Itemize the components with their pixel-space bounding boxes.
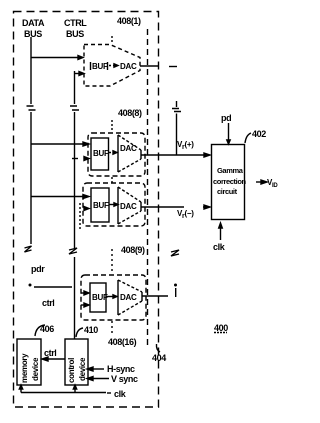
wire clk arrow to gamma xyxy=(220,228,222,240)
DAC3 trapezoid xyxy=(117,187,119,224)
wire block4 output tick xyxy=(175,288,177,297)
arrow BUF4 to DAC4 xyxy=(106,296,114,298)
memory device box 406 xyxy=(17,339,41,385)
wire vertical to Vr(+) with break xyxy=(176,101,178,107)
underline 400 xyxy=(214,332,227,334)
wire Vr(-) output xyxy=(141,206,184,208)
svg-text:CTRL: CTRL xyxy=(64,18,87,28)
svg-text:V sync: V sync xyxy=(111,374,138,384)
leader 410 xyxy=(76,328,83,337)
wire data to block3 xyxy=(31,196,86,198)
wire data to block1 xyxy=(31,57,80,59)
svg-text:DAC: DAC xyxy=(120,202,137,211)
leader 406 xyxy=(35,325,45,336)
svg-text:410: 410 xyxy=(84,325,98,335)
svg-text:DAC: DAC xyxy=(120,62,137,71)
svg-text:406: 406 xyxy=(40,324,54,334)
wire H-sync arrow xyxy=(91,368,104,370)
svg-text:BUF: BUF xyxy=(93,149,109,158)
leader 402 xyxy=(245,133,251,143)
data bus break xyxy=(27,106,36,110)
svg-text:DATA: DATA xyxy=(22,18,45,28)
svg-text:BUS: BUS xyxy=(66,29,84,39)
squiggle break right area xyxy=(171,250,179,256)
svg-text:pdr: pdr xyxy=(31,264,45,274)
wire ctrl to block2 xyxy=(72,158,78,160)
svg-text:408(8): 408(8) xyxy=(118,108,142,118)
wire ctrl bus lower to control device xyxy=(74,257,76,339)
svg-text:BUS: BUS xyxy=(24,29,42,39)
DAC block 408(1) dashed hexagon xyxy=(84,45,140,87)
svg-text:clk: clk xyxy=(114,389,127,399)
svg-text:Gamma: Gamma xyxy=(217,166,244,175)
ctrl bus break xyxy=(70,106,79,110)
wire ctrl to block1 xyxy=(75,73,81,75)
buffer BUF3 rect xyxy=(91,188,109,222)
DAC4 trapezoid xyxy=(117,280,119,315)
arrow BUF3 to DAC3 xyxy=(109,204,115,206)
svg-text:408(9): 408(9) xyxy=(121,245,145,255)
wire Vid output arrow xyxy=(256,181,262,183)
ctrl bus squiggle break xyxy=(69,248,77,254)
wire data to block2 xyxy=(31,143,86,145)
svg-text:ctrl: ctrl xyxy=(44,348,56,358)
svg-text:400: 400 xyxy=(214,323,228,333)
DAC block 408(16) dashed box xyxy=(81,275,146,320)
dashed arrow BUF2 to DAC2 xyxy=(109,152,114,154)
wire ctrl bus vertical xyxy=(74,71,76,104)
svg-text:circuit: circuit xyxy=(217,187,238,196)
wire V-sync arrow xyxy=(91,378,109,380)
svg-text:H-sync: H-sync xyxy=(107,364,135,374)
control device box 410 xyxy=(65,339,88,385)
DAC2 trapezoid xyxy=(117,135,119,172)
wire Vr(+) into gamma box xyxy=(141,154,207,156)
svg-text:control: control xyxy=(67,358,76,383)
wire ctrl bus middle xyxy=(74,112,76,248)
dotted connector below block4 xyxy=(111,321,113,335)
dotted connector block3-block4 xyxy=(111,249,113,274)
wire data bus lower xyxy=(30,112,32,244)
svg-text:404: 404 xyxy=(152,353,166,363)
clk label dash xyxy=(107,392,111,394)
svg-text:BUF: BUF xyxy=(93,201,109,210)
wire ctrl arrow control to memory xyxy=(46,358,65,360)
svg-text:ctrl: ctrl xyxy=(42,298,54,308)
svg-text:BUF: BUF xyxy=(92,293,108,302)
wire clk up to control device xyxy=(74,388,76,393)
dotted connector block2-block3 xyxy=(111,177,113,183)
outer dashed box 404 xyxy=(14,12,159,408)
leader 404 xyxy=(156,344,160,352)
svg-text:clk: clk xyxy=(213,242,226,252)
DAC block3 dashed box xyxy=(83,183,145,226)
svg-text:DAC: DAC xyxy=(120,293,137,302)
wire clk line bottom xyxy=(21,392,106,394)
gamma correction circuit box 402 xyxy=(212,145,245,220)
svg-text:408(1): 408(1) xyxy=(117,16,141,26)
dashed arrow BUF to DAC block1 xyxy=(109,65,115,67)
wire pdr line xyxy=(34,286,72,288)
buffer BUF2 rect xyxy=(91,138,109,170)
wire arrows into BUF4 xyxy=(81,292,86,294)
wire ctrl dotted to block3 xyxy=(79,203,81,231)
svg-text:pd: pd xyxy=(221,113,231,123)
wire block1 output dash xyxy=(169,66,177,68)
wire data bus vertical xyxy=(30,37,32,104)
wire pd arrow xyxy=(228,123,230,141)
buffer BUF4 rect xyxy=(90,283,106,312)
svg-text:408(16): 408(16) xyxy=(108,337,137,347)
svg-text:correction: correction xyxy=(213,177,246,186)
svg-text:memory: memory xyxy=(20,353,29,383)
dotted connector block1-block2 xyxy=(111,120,113,132)
svg-text:DAC: DAC xyxy=(120,144,137,153)
svg-text:device: device xyxy=(78,357,87,381)
svg-text:402: 402 xyxy=(252,129,266,139)
wire clk up to memory device xyxy=(20,388,22,393)
wire block4 output xyxy=(142,295,168,297)
svg-text:BUF: BUF xyxy=(92,62,108,71)
DAC block 408(8) dashed box xyxy=(88,133,145,176)
BUF tick marks block1 xyxy=(91,62,108,70)
dotted connector above block1 xyxy=(111,36,113,44)
svg-text:device: device xyxy=(31,357,40,381)
wire block1 output xyxy=(140,65,159,67)
inner dashed vertical line xyxy=(147,29,149,348)
data bus squiggle break xyxy=(25,246,32,252)
